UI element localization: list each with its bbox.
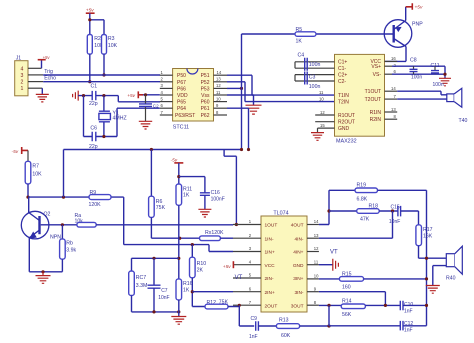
speaker R40 <box>446 246 462 281</box>
pin U1-7 <box>160 114 173 116</box>
wire J1 pin1 to ground <box>41 88 43 94</box>
svg-text:R2IN: R2IN <box>370 117 382 123</box>
svg-text:14: 14 <box>217 70 222 75</box>
wire +5v to VDD <box>143 94 160 96</box>
svg-text:11: 11 <box>216 90 221 95</box>
svg-text:4OUT: 4OUT <box>291 223 304 229</box>
pin U1-4 <box>160 94 173 96</box>
svg-text:1K: 1K <box>183 287 190 293</box>
IC U3 TL074 <box>261 211 307 313</box>
svg-text:GND: GND <box>293 263 304 269</box>
svg-text:6.8K: 6.8K <box>357 196 368 202</box>
svg-text:4MHZ: 4MHZ <box>113 115 127 121</box>
pin U3-14 <box>307 224 319 226</box>
resistor R11 <box>176 184 192 205</box>
svg-text:R2: R2 <box>94 36 101 42</box>
pin U3-8 <box>307 304 319 306</box>
svg-text:3IN+: 3IN+ <box>293 276 303 282</box>
wire Trig to P50 <box>43 74 160 76</box>
pin U1-3 <box>160 87 173 89</box>
svg-text:12: 12 <box>216 83 221 88</box>
wire C16 branch <box>179 177 205 193</box>
svg-text:C6: C6 <box>90 125 97 131</box>
ground sideways pin11 <box>319 259 339 271</box>
svg-text:75K: 75K <box>156 205 166 211</box>
svg-text:+5v: +5v <box>127 93 135 99</box>
pin J1-3 <box>28 74 43 76</box>
svg-text:C9: C9 <box>251 316 258 322</box>
node C7 top <box>152 257 155 260</box>
svg-text:10nF: 10nF <box>158 295 169 301</box>
capacitor C1 <box>89 84 98 107</box>
node C10 output <box>425 304 428 307</box>
pin U1-2 <box>160 81 173 83</box>
svg-text:4IN+: 4IN+ <box>293 250 303 256</box>
node C1 left <box>82 94 85 97</box>
svg-text:1OUT: 1OUT <box>265 223 278 229</box>
svg-text:C7: C7 <box>161 288 168 294</box>
svg-text:R17: R17 <box>423 227 433 233</box>
pin U2 C1+ <box>295 62 335 68</box>
pin U1-12 <box>214 87 228 89</box>
svg-text:16K: 16K <box>423 233 433 239</box>
svg-text:R1OUT: R1OUT <box>338 113 355 119</box>
power +5v PNP <box>406 3 423 10</box>
svg-text:R1IN: R1IN <box>370 110 382 116</box>
svg-text:2K: 2K <box>197 267 204 273</box>
resistor RC7 <box>129 271 148 296</box>
pin U2-13 R1IN <box>385 111 398 113</box>
pin U2 C2+ <box>295 75 335 81</box>
wire R16 bottom to ground <box>178 300 180 317</box>
svg-text:C1-: C1- <box>338 66 346 72</box>
svg-text:10K: 10K <box>108 43 118 49</box>
resistor R12 <box>205 300 229 309</box>
svg-text:2OUT: 2OUT <box>265 303 278 309</box>
svg-text:Q2: Q2 <box>44 212 51 218</box>
svg-text:4: 4 <box>21 66 24 72</box>
svg-text:P64: P64 <box>177 106 186 112</box>
resistor R2 <box>87 35 104 55</box>
capacitor C8 <box>410 57 423 80</box>
resistor R17 <box>416 225 433 246</box>
svg-text:P65: P65 <box>177 100 186 106</box>
power +5v J1 <box>38 55 51 60</box>
node RC7 net on R11 column <box>177 257 180 260</box>
svg-text:3.3M: 3.3M <box>136 283 148 289</box>
wire P52 to T2IN <box>227 82 335 102</box>
svg-text:-5v: -5v <box>12 149 19 155</box>
svg-text:120K: 120K <box>89 202 102 208</box>
svg-text:3.9k: 3.9k <box>66 248 76 254</box>
svg-text:2: 2 <box>21 80 24 86</box>
capacitor C11 <box>431 63 444 88</box>
node pin8 down tap <box>327 304 330 307</box>
svg-text:C3: C3 <box>309 75 316 81</box>
wire VS- <box>392 73 445 75</box>
svg-text:P52: P52 <box>201 80 210 86</box>
svg-text:100n: 100n <box>411 75 422 81</box>
wire speaker R40 bottom to ground <box>433 266 447 286</box>
pin U2-14 T1OUT <box>385 90 398 92</box>
pin U2 C1- <box>295 67 335 69</box>
svg-text:1K: 1K <box>183 193 190 199</box>
pin U3-11 <box>307 264 319 266</box>
node step joins pin1 wire <box>235 223 238 226</box>
pin U1-1 <box>160 74 173 76</box>
resistor R18 <box>329 204 398 223</box>
node R2R3 top <box>88 18 91 21</box>
node C7 bottom <box>152 310 155 313</box>
wire R17 to speaker <box>419 246 447 259</box>
svg-text:1: 1 <box>21 86 24 92</box>
wire left vertical C1-C6 <box>83 96 85 137</box>
power +5v VDD <box>127 91 143 99</box>
ground R16 <box>171 317 186 325</box>
svg-text:Echo: Echo <box>44 76 56 82</box>
wire R5 vertical <box>241 34 243 150</box>
node R13/C12/pin8 <box>327 324 330 327</box>
svg-text:VT: VT <box>330 250 338 256</box>
svg-text:T1IN: T1IN <box>338 93 349 99</box>
pin U1-10 <box>214 101 228 103</box>
wire RC7 bottom net <box>132 296 179 312</box>
svg-text:P53: P53 <box>201 86 210 92</box>
wire pin8 to R14 <box>319 304 341 306</box>
svg-text:11: 11 <box>314 259 319 264</box>
ground MAX232 <box>311 133 324 141</box>
node C16 tap <box>177 175 180 178</box>
svg-text:Vss: Vss <box>201 93 210 99</box>
wire C15 to R17 <box>401 211 419 225</box>
ground C16 <box>198 209 211 217</box>
svg-text:R3: R3 <box>108 36 115 42</box>
svg-text:4IN-: 4IN- <box>294 236 303 242</box>
capacitor C7 <box>148 258 170 312</box>
ground R40 <box>426 286 440 294</box>
pin U1-6 <box>160 107 173 109</box>
svg-text:10: 10 <box>319 97 324 102</box>
node P53/R5 <box>240 87 243 90</box>
svg-text:12: 12 <box>320 110 325 115</box>
transistor Q1 PNP <box>384 20 423 48</box>
pin U1-5 <box>160 101 173 103</box>
IC U1 STC11 <box>173 69 214 131</box>
pin U3-12 <box>307 251 319 253</box>
svg-text:R13: R13 <box>279 318 289 324</box>
pin U3-6 <box>233 291 261 293</box>
power +5v top <box>86 8 95 14</box>
svg-text:R16: R16 <box>183 281 193 287</box>
wire C9 to R13 <box>258 325 276 327</box>
svg-text:VCC: VCC <box>265 263 276 269</box>
IC U2 MAX232 <box>335 54 385 144</box>
svg-text:Rx120K: Rx120K <box>205 230 224 236</box>
svg-text:11: 11 <box>319 90 324 95</box>
svg-text:R6: R6 <box>156 199 163 205</box>
wire J1 pin4 to +5v <box>41 60 43 69</box>
wire R13 to pin8 node <box>300 325 329 327</box>
pin U3-10 <box>307 278 319 280</box>
capacitor C6 <box>89 125 98 150</box>
svg-text:R7: R7 <box>32 164 39 170</box>
wire T2OUT to speaker <box>397 98 447 100</box>
svg-text:2IN-: 2IN- <box>265 276 274 282</box>
wire pin9 to R14 node <box>319 292 386 306</box>
svg-text:10: 10 <box>216 96 221 101</box>
svg-text:T2OUT: T2OUT <box>365 97 381 103</box>
pin U2 C2- <box>295 80 335 82</box>
pin U2-6 VS- <box>385 73 393 75</box>
svg-text:14: 14 <box>391 86 396 91</box>
svg-text:RC7: RC7 <box>136 275 146 281</box>
svg-text:100n: 100n <box>309 62 321 68</box>
svg-text:1IN+: 1IN+ <box>265 250 275 256</box>
wire VS+ to ground <box>392 66 445 78</box>
svg-text:T40: T40 <box>459 118 468 124</box>
crystal Y1 <box>99 111 127 122</box>
svg-text:P63/RST: P63/RST <box>175 113 195 119</box>
wire Ra to TL074 pin1 <box>96 224 233 226</box>
node R18 tap <box>327 209 330 212</box>
speaker T40 <box>447 88 468 124</box>
svg-text:15: 15 <box>320 123 325 128</box>
node emitter ground tap <box>41 270 44 273</box>
svg-text:3: 3 <box>21 73 24 79</box>
node Rb tap <box>61 223 64 226</box>
capacitor C10 <box>400 301 413 315</box>
svg-text:P50: P50 <box>177 73 186 79</box>
wire R9 net <box>28 197 233 251</box>
node C1 right <box>102 94 105 97</box>
capacitor C2 <box>139 95 159 122</box>
wire Echo to P67 <box>43 81 160 83</box>
svg-text:P67: P67 <box>177 80 186 86</box>
wire pin13 up to node <box>319 211 393 238</box>
ground C2 <box>139 121 152 129</box>
power -5v R7 <box>12 147 29 155</box>
node R6 top on long wire <box>150 148 153 151</box>
svg-text:3OUT: 3OUT <box>291 303 304 309</box>
node C6 right <box>102 135 105 138</box>
pin U2-7 T2OUT <box>385 98 398 100</box>
node long wire tap <box>62 196 65 199</box>
svg-text:R2OUT: R2OUT <box>338 120 355 126</box>
wire R12 to pin7 node <box>228 305 239 306</box>
svg-text:C4: C4 <box>298 53 305 59</box>
pin U1-14 <box>214 74 228 76</box>
node R15 output <box>425 277 428 280</box>
wire C16 to ground <box>204 195 206 209</box>
wire P51 to T1IN <box>227 75 335 95</box>
wire Vss to ground <box>227 95 254 105</box>
svg-text:VS+: VS+ <box>371 64 381 70</box>
wire C10 to output column <box>403 304 427 306</box>
node pin7/R12/C9 <box>238 304 241 307</box>
node output column crossing <box>425 257 428 260</box>
wire PNP emitter to +5v <box>405 7 407 21</box>
svg-text:T1OUT: T1OUT <box>365 89 381 95</box>
wire Q2 collector <box>28 197 30 212</box>
svg-text:16: 16 <box>391 56 396 61</box>
svg-text:Rb: Rb <box>66 241 73 247</box>
wire pin14 to feedback node <box>319 190 329 224</box>
svg-text:22p: 22p <box>89 101 98 107</box>
pin U2 GND wire <box>318 128 335 133</box>
ground sideways at C1 <box>73 91 79 101</box>
node P61/long wire <box>247 148 250 151</box>
wire R5 horizontal <box>242 33 394 35</box>
wire R7 to collector node <box>27 184 29 197</box>
svg-text:12: 12 <box>314 246 319 251</box>
wire step to pin1 <box>224 150 236 225</box>
svg-text:13: 13 <box>314 233 319 238</box>
node VS-/gnd <box>443 73 446 76</box>
svg-text:1nF: 1nF <box>404 328 413 334</box>
pin U2-8 R2IN <box>385 118 398 120</box>
pin J1-4 <box>28 67 42 69</box>
wire R6 bottom to pin2 net <box>151 217 199 238</box>
resistor R16 <box>176 279 193 300</box>
wire P61 down <box>227 108 249 149</box>
wire P53 to R5 net <box>227 87 242 89</box>
pin U2 R2OUT <box>315 121 334 123</box>
wire Q2 emitter to ground <box>29 238 62 272</box>
wire RC7/C7 top net <box>132 258 179 271</box>
wire pin8 node down <box>328 305 330 326</box>
ground Vss <box>246 105 262 114</box>
svg-text:MAX232: MAX232 <box>336 139 357 145</box>
svg-text:1IN-: 1IN- <box>265 236 274 242</box>
pin U3-3 <box>233 251 261 253</box>
svg-text:100nF: 100nF <box>211 197 225 203</box>
wire pin7 down to C9 <box>239 305 254 326</box>
pin J1-2 <box>28 81 43 83</box>
node R2/Echo <box>88 80 91 83</box>
svg-text:C2: C2 <box>153 104 159 109</box>
svg-text:47K: 47K <box>360 216 370 222</box>
resistor R5 <box>295 27 316 45</box>
ground VS <box>439 78 451 86</box>
resistor R19 <box>329 183 427 326</box>
power +5v pin4 <box>223 261 234 270</box>
capacitor C4 <box>298 53 321 71</box>
svg-text:60K: 60K <box>281 333 291 339</box>
svg-text:C8: C8 <box>410 57 417 63</box>
node R16 bottom net <box>177 310 180 313</box>
resistor Rb <box>60 225 77 259</box>
node VDD cap tap <box>144 93 147 96</box>
pin U3-5 <box>233 277 261 279</box>
svg-text:PNP: PNP <box>412 22 423 28</box>
svg-text:P66: P66 <box>177 86 186 92</box>
resistor Rx <box>200 230 224 241</box>
resistor R7 <box>25 161 42 184</box>
power -5v R11 <box>171 158 184 164</box>
node R7/Q2 <box>26 196 29 199</box>
capacitor C9 <box>249 316 258 340</box>
wire R10 bottom to R12 <box>192 278 205 307</box>
pin U1-13 <box>214 81 228 83</box>
node R11 column on pin2 net <box>178 237 181 240</box>
wire R2 bottom to Echo <box>89 54 91 82</box>
connector J1 <box>15 56 28 96</box>
pin U2-16 VCC <box>385 60 398 62</box>
resistor R3 <box>102 35 118 55</box>
wire T1OUT to speaker <box>397 91 447 95</box>
svg-text:P51: P51 <box>201 73 210 79</box>
svg-text:R40: R40 <box>446 276 456 282</box>
svg-text:C1: C1 <box>91 84 98 90</box>
wire C12 net <box>329 325 427 327</box>
svg-text:VDD: VDD <box>177 93 188 99</box>
node pin9/R14 <box>384 304 387 307</box>
svg-text:Trig: Trig <box>44 69 53 75</box>
svg-text:56K: 56K <box>342 312 352 318</box>
capacitor C16 <box>200 190 225 203</box>
svg-text:R11: R11 <box>183 187 192 193</box>
wire crystal column <box>103 96 105 137</box>
pin U1-9 <box>214 107 228 109</box>
pin U3-7 <box>233 304 261 306</box>
wire pin6 <box>192 291 233 293</box>
svg-text:100n: 100n <box>433 82 444 88</box>
pin U3-1 <box>233 224 261 226</box>
ground J1 <box>36 94 49 102</box>
svg-text:13: 13 <box>391 107 396 112</box>
svg-text:14: 14 <box>314 219 319 224</box>
wire R3 bottom to Trig <box>103 54 105 75</box>
svg-text:R10: R10 <box>197 261 207 267</box>
svg-text:1nF: 1nF <box>249 334 258 340</box>
svg-text:P61: P61 <box>201 106 210 112</box>
wire C6 net to pin7 <box>84 108 160 136</box>
pin U3-13 <box>307 237 319 239</box>
capacitor C15 <box>389 204 401 225</box>
resistor Ra <box>75 213 97 227</box>
wire Rx to pin2 <box>220 237 233 239</box>
node pin6 tap <box>191 290 194 293</box>
svg-text:C2+: C2+ <box>338 73 347 79</box>
svg-text:160: 160 <box>342 284 351 290</box>
svg-text:T2IN: T2IN <box>338 100 349 106</box>
svg-text:VT: VT <box>235 275 243 281</box>
node R5 vertical joins long wire <box>240 148 243 151</box>
resistor R14 <box>341 298 400 318</box>
capacitor C3 <box>305 72 321 91</box>
resistor R10 <box>190 245 207 278</box>
node R3/Trig <box>102 73 105 76</box>
svg-text:10nF: 10nF <box>389 219 400 225</box>
svg-text:P62: P62 <box>201 113 210 119</box>
node pin13 feedback <box>391 209 394 212</box>
svg-text:C2-: C2- <box>338 79 346 85</box>
svg-text:+5v: +5v <box>223 264 231 270</box>
pin U2 R1OUT <box>315 114 334 116</box>
svg-text:10K: 10K <box>32 172 42 178</box>
svg-text:C16: C16 <box>211 190 220 196</box>
wire long to TL074 <box>64 150 242 198</box>
wire Q2 base to Ra <box>41 224 77 226</box>
resistor R13 <box>276 318 299 339</box>
wire +5v to R2/R3 <box>90 13 104 34</box>
pin U1-8 <box>214 114 228 116</box>
transistor Q2 NPN <box>21 211 61 240</box>
wire -5v to R11 <box>178 163 180 184</box>
node R10 top tap <box>191 243 194 246</box>
pin U3-4 <box>233 264 261 266</box>
svg-text:STC11: STC11 <box>173 125 189 131</box>
